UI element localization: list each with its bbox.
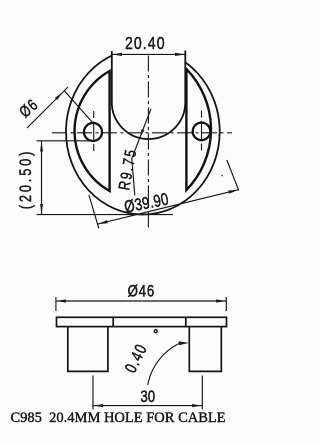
svg-text:C985 20.4MM HOLE FOR CABLE: C985 20.4MM HOLE FOR CABLE bbox=[11, 410, 226, 426]
svg-text:(20.50): (20.50) bbox=[18, 149, 36, 209]
svg-text:20.40: 20.40 bbox=[125, 33, 166, 53]
svg-text:30: 30 bbox=[140, 388, 155, 407]
svg-text:Ø46: Ø46 bbox=[128, 282, 155, 301]
